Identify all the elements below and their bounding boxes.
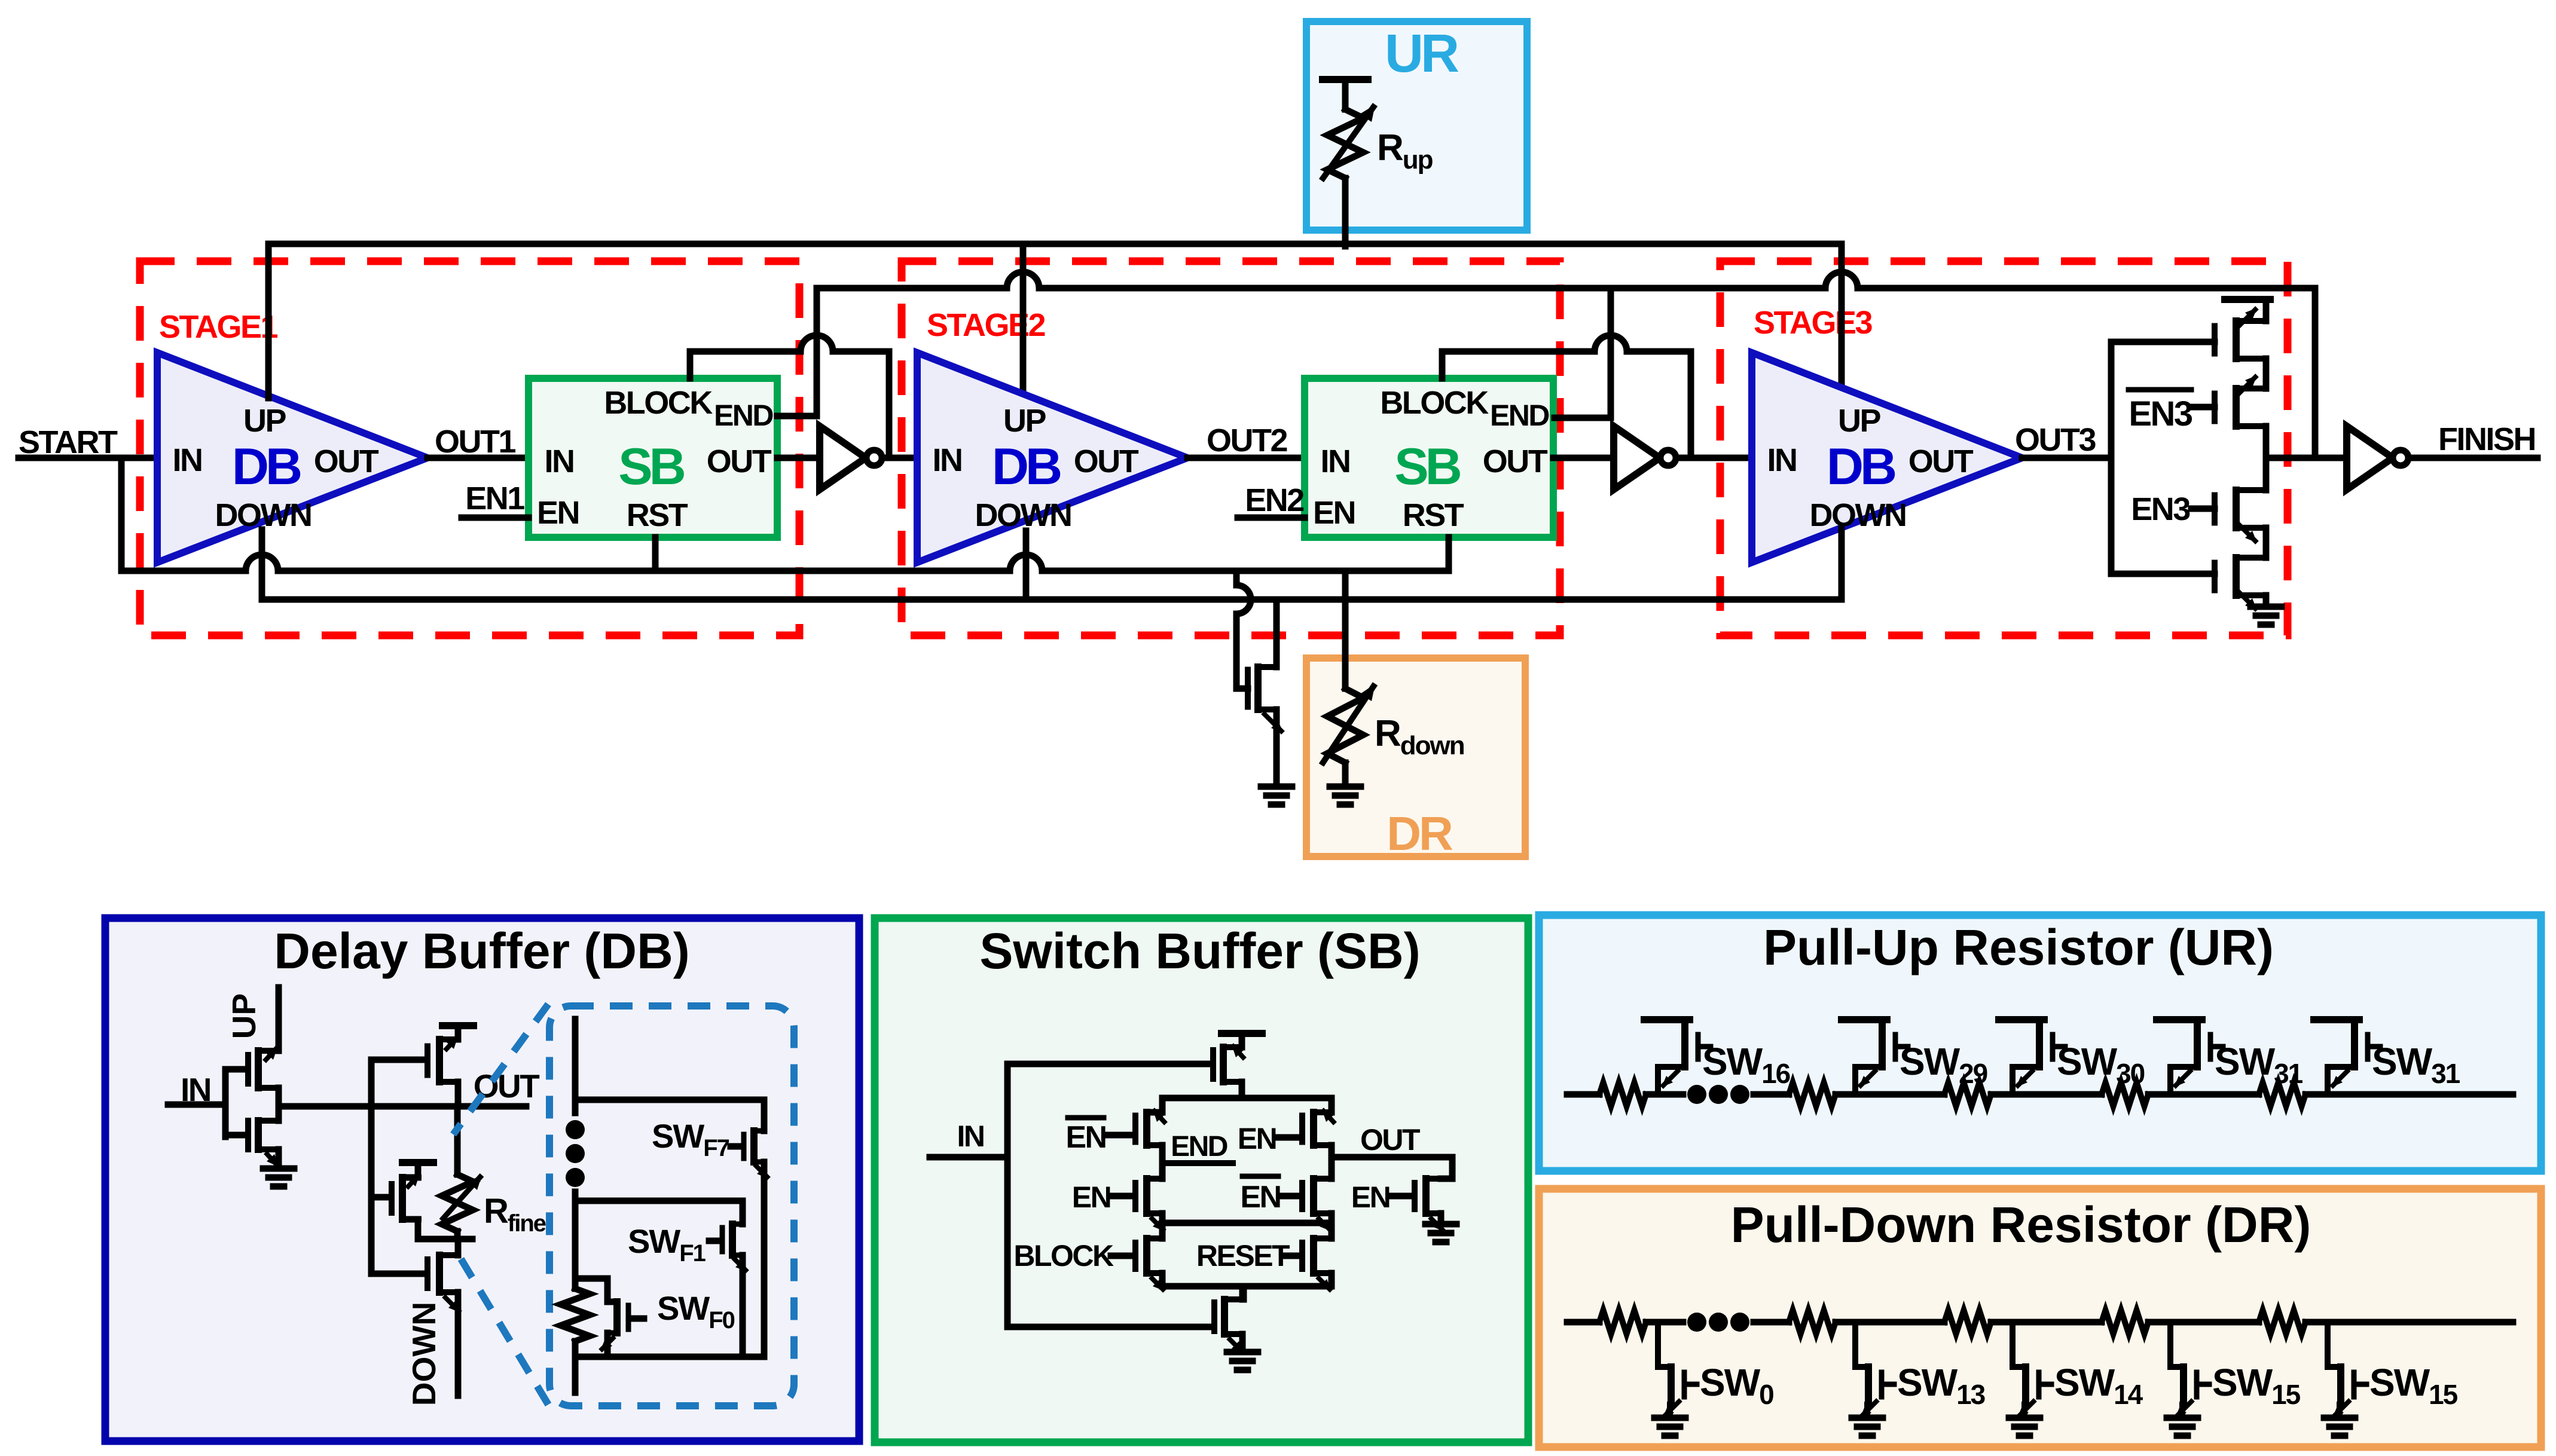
wire NMOS drain to DOWN bus <box>1274 599 1280 667</box>
VDD symbol SB top <box>1221 1033 1262 1047</box>
variable resistor Rup <box>1321 105 1375 181</box>
svg-text:STAGE2: STAGE2 <box>927 307 1045 343</box>
wire IN <box>168 1102 225 1108</box>
wire END bus drop to FINISH node <box>2312 288 2319 458</box>
wire right col row3 top <box>1329 1223 1335 1238</box>
Pull-Up Resistor panel title <box>1763 919 2274 975</box>
END feedback bus wire y=482 <box>817 272 2315 288</box>
wire gate lead bottom NMOS <box>371 1271 425 1277</box>
SW15 label <box>2212 1361 2301 1410</box>
wire gate lead top PMOS <box>371 1057 425 1063</box>
transistor MN4 stack bottom <box>2215 558 2266 610</box>
wire inv out node <box>276 1088 282 1121</box>
svg-text:OUT2: OUT2 <box>1207 423 1287 458</box>
wire node 2073 <box>418 1236 472 1243</box>
Rup label <box>1377 127 1433 175</box>
wire Rfine top <box>454 1106 461 1174</box>
SW31b label <box>2372 1040 2460 1089</box>
svg-text:UR: UR <box>1385 24 1459 84</box>
wire right col top <box>1329 1098 1335 1112</box>
svg-text:OUT: OUT <box>1908 443 1974 479</box>
wire OUT drop <box>1441 1157 1452 1179</box>
Pull-Up Resistor panel box <box>1539 915 2541 1171</box>
svg-text:OUT: OUT <box>1360 1123 1420 1157</box>
wire SWF0 down <box>604 1333 611 1357</box>
switch transistor SW31 <box>2157 1020 2223 1094</box>
EN left label <box>1072 1180 1110 1214</box>
pull-up resistor block UR box <box>1306 22 1527 230</box>
svg-text:DB: DB <box>232 438 301 495</box>
OUT label DB panel <box>474 1067 540 1105</box>
svg-text:EN1: EN1 <box>465 481 524 516</box>
node EN1 label <box>465 481 524 516</box>
transistor MP2 EN3bar <box>2215 375 2266 426</box>
DB1 pin label OUT <box>314 443 379 479</box>
wire EN left gate lead <box>1112 1193 1133 1200</box>
UP label rotated <box>225 993 262 1039</box>
wire RST1 vertical <box>652 537 659 571</box>
svg-text:IN: IN <box>933 442 962 478</box>
Pull-Down Resistor panel title <box>1731 1197 2311 1253</box>
wire 2nd gate rail <box>368 1060 375 1274</box>
wire stack output <box>2266 455 2347 461</box>
transistor MP1 EN stack top <box>2215 308 2266 359</box>
node OUT1 label <box>435 424 515 460</box>
svg-text:RST: RST <box>1403 497 1464 533</box>
svg-text:EN3: EN3 <box>2131 491 2190 527</box>
RST bus wire y=955 <box>121 555 1449 571</box>
transistor BLOCK <box>1135 1238 1165 1291</box>
wire SWF7 branch top <box>575 1100 764 1131</box>
SWF0 label <box>657 1289 735 1333</box>
wire fine bottom collector <box>575 1341 764 1393</box>
wire SWF0 bypass <box>575 1278 615 1302</box>
wire START drop to RST bus <box>118 458 125 571</box>
wire EN3 gate lead <box>2191 506 2215 512</box>
svg-text:OUT: OUT <box>314 443 379 479</box>
SB2 pin label OUT <box>1483 443 1548 479</box>
svg-text:IN: IN <box>957 1119 984 1153</box>
SB1 pin label BLOCK <box>604 385 713 421</box>
DB1 pin label DOWN <box>215 497 312 533</box>
svg-text:UP: UP <box>1838 403 1880 439</box>
wire SB left rail <box>1004 1064 1011 1327</box>
wire UP2 vertical <box>1020 244 1027 394</box>
switch transistor SW30 <box>1999 1020 2065 1094</box>
wire MN source to ground <box>276 1149 282 1169</box>
wire EN right gate lead <box>1278 1134 1300 1141</box>
wire UP3 vertical <box>1839 244 1845 388</box>
STAGE1 dashed box <box>140 261 799 635</box>
SW31 label <box>2215 1040 2303 1089</box>
svg-text:Pull-Up Resistor (UR): Pull-Up Resistor (UR) <box>1763 919 2274 975</box>
wire SWF7 gate lead <box>731 1143 741 1150</box>
svg-text:EN: EN <box>1313 495 1355 531</box>
wire NMOS source to ground <box>1274 709 1280 787</box>
svg-text:IN: IN <box>1321 443 1350 479</box>
UR resistor R1 <box>1599 1082 1646 1106</box>
wire SB2 to inverter <box>1553 455 1614 461</box>
wire OUT1 <box>427 455 529 461</box>
transistor MN SB bottom <box>1214 1299 1244 1353</box>
wire OUT SB <box>1332 1154 1452 1161</box>
wire MP1-MP2 <box>2263 359 2270 389</box>
svg-text:EN: EN <box>537 495 579 531</box>
DR resistor R1 <box>1599 1310 1646 1334</box>
SB1 pin label OUT <box>707 443 772 479</box>
wire ENbar right gate lead <box>1281 1193 1300 1200</box>
SB1 pin label RST <box>627 497 688 533</box>
wire DOWN lead <box>455 1292 462 1396</box>
svg-text:Pull-Down Resistor (DR): Pull-Down Resistor (DR) <box>1731 1197 2311 1253</box>
node EN2 label <box>1245 482 1303 518</box>
wire DB1 DOWN vertical <box>259 530 265 599</box>
wire bridge left top corner <box>1150 1098 1162 1112</box>
DB1 pin label IN <box>173 442 202 478</box>
svg-text:OUT: OUT <box>707 443 772 479</box>
node OUT2 label <box>1207 423 1287 458</box>
SWF1 label <box>628 1222 706 1267</box>
wire RST bus drop to NMOS gate <box>1236 571 1251 689</box>
SB2 pin label IN <box>1321 443 1350 479</box>
wire drain to out wire <box>455 1082 462 1106</box>
wire START input <box>19 455 157 461</box>
switch transistor SW31b <box>2314 1020 2380 1094</box>
DB3 pin label IN <box>1767 442 1797 478</box>
RESET label <box>1196 1239 1290 1273</box>
UR resistor R3 <box>1944 1082 1991 1106</box>
SW13 label <box>1897 1361 1985 1410</box>
wire OUT2 <box>1187 455 1305 461</box>
wire gate rail inv <box>225 1069 246 1137</box>
svg-text:STAGE1: STAGE1 <box>159 309 278 345</box>
SW16 label <box>1702 1040 1790 1089</box>
EN right label <box>1238 1122 1276 1155</box>
svg-text:IN: IN <box>1767 442 1797 478</box>
transistor MN down <box>427 1255 460 1313</box>
variable resistor Rdown <box>1321 684 1375 765</box>
svg-text:Switch Buffer (SB): Switch Buffer (SB) <box>979 923 1420 979</box>
svg-text:OUT1: OUT1 <box>435 424 515 460</box>
wire left col row3 bottom <box>1159 1273 1166 1286</box>
SB2 pin label RST <box>1403 497 1464 533</box>
svg-text:BLOCK: BLOCK <box>1380 385 1489 421</box>
Switch Buffer panel title <box>979 923 1420 979</box>
ENbar right label <box>1240 1176 1280 1215</box>
wire END2 feedback <box>1555 288 1611 418</box>
blue dashed zoom box <box>549 1006 794 1406</box>
Delay Buffer panel title <box>274 923 689 979</box>
wire right col to rail2 <box>1329 1213 1335 1223</box>
delay buffer DB2 triangle <box>917 353 1187 562</box>
wire Rfine bottom <box>454 1231 461 1239</box>
wire SWF1 branch <box>575 1201 743 1224</box>
SB2 label SB <box>1394 438 1460 495</box>
DB3 pin label OUT <box>1908 443 1974 479</box>
wire DB1 UP vertical <box>265 244 272 398</box>
blue dashed zoom diagonal top <box>453 1004 548 1134</box>
svg-text:DB: DB <box>992 438 1061 495</box>
STAGE1 label <box>159 309 278 345</box>
delay buffer DB3 triangle <box>1752 353 2022 562</box>
wire fine rail top <box>572 1019 579 1113</box>
wire bridge top rail <box>1162 1095 1332 1102</box>
transistor MP mid <box>392 1174 420 1219</box>
svg-text:Delay Buffer (DB): Delay Buffer (DB) <box>274 923 689 979</box>
DB2 pin label UP <box>1003 403 1046 439</box>
DOWN label rotated <box>405 1302 442 1406</box>
wire EN1 <box>462 515 529 521</box>
transistor SWF1 <box>722 1224 747 1272</box>
inverter INV2 <box>1614 426 1676 490</box>
wire UP supply <box>276 987 282 1051</box>
wire EN pass gate lead <box>1391 1193 1412 1200</box>
transistor SWF7 <box>744 1131 769 1179</box>
wire DB2 DOWN vertical <box>1023 531 1030 599</box>
EN3bar label <box>2129 390 2192 433</box>
wire RST2 vertical <box>1446 537 1452 571</box>
wire MP drain to bridge <box>1239 1082 1245 1098</box>
svg-text:END: END <box>1171 1131 1227 1163</box>
OUT label SB panel <box>1360 1123 1420 1157</box>
wire SWF1 down <box>740 1255 746 1357</box>
wire BLOCK gate lead <box>1111 1253 1133 1259</box>
SB2 pin label EN <box>1313 495 1355 531</box>
wire SWF1 gate lead <box>709 1238 720 1244</box>
wire EN3bar gate lead <box>2191 404 2215 411</box>
top bus wire <box>268 244 1842 396</box>
ground at SB bottom <box>1227 1352 1258 1370</box>
DB2 label DB <box>992 438 1061 495</box>
inverter INV1 <box>820 426 882 490</box>
wire EN2 <box>1238 515 1305 521</box>
svg-text:RST: RST <box>627 497 688 533</box>
DR dots <box>1687 1313 1749 1332</box>
transistor MN inv <box>248 1121 279 1167</box>
Rfine label <box>484 1192 546 1237</box>
svg-text:EN3: EN3 <box>2129 394 2192 433</box>
node FINISH label <box>2438 421 2535 457</box>
STAGE3 dashed box <box>1720 261 2288 635</box>
VDD symbol mid PMOS <box>402 1163 433 1177</box>
svg-text:IN: IN <box>173 442 202 478</box>
UR resistor R5 <box>2259 1082 2305 1106</box>
DR chain wire <box>1567 1319 2513 1326</box>
SB1 pin label IN <box>545 443 574 479</box>
svg-text:OUT: OUT <box>1074 443 1139 479</box>
svg-text:EN2: EN2 <box>1245 482 1303 518</box>
STAGE2 dashed box <box>902 261 1560 635</box>
wire gate bracket of output stack <box>2111 342 2215 574</box>
DR label <box>1387 807 1453 860</box>
wire FINISH <box>2408 455 2537 461</box>
DB3 label DB <box>1827 438 1895 495</box>
switch transistor SW29 <box>1842 1020 1908 1094</box>
SB2 pin label END <box>1490 399 1549 432</box>
wire drop to bottom NMOS <box>1241 1286 1247 1299</box>
blue dashed zoom diagonal bottom <box>458 1254 548 1405</box>
UR chain wire <box>1567 1091 2513 1098</box>
svg-text:STAGE3: STAGE3 <box>1754 305 1873 341</box>
svg-text:FINISH: FINISH <box>2438 421 2535 457</box>
DOWN bus wire y=1003 <box>262 597 1842 603</box>
wire right mid node <box>1329 1145 1335 1179</box>
wire BLOCK2 feedback <box>1442 335 1691 458</box>
DB2 pin label IN <box>933 442 962 478</box>
DB2 pin label OUT <box>1074 443 1139 479</box>
ground at stack <box>2250 607 2282 625</box>
wire END1 feedback <box>777 288 817 416</box>
wire IN SB <box>930 1154 1007 1161</box>
wire bridge mid rail <box>1162 1220 1332 1226</box>
transistor RESET <box>1302 1238 1332 1291</box>
VDD symbol in UR <box>1323 76 1368 83</box>
DR resistor R5 <box>2259 1310 2305 1334</box>
transistor ENbar right <box>1302 1179 1332 1231</box>
svg-text:EN: EN <box>1072 1180 1110 1214</box>
Pull-Down Resistor panel box <box>1539 1189 2541 1447</box>
SB2 pin label BLOCK <box>1380 385 1489 421</box>
wire mid PMOS drain <box>402 1219 418 1239</box>
switch buffer SB2 box <box>1305 378 1553 537</box>
SB1 label SB <box>618 438 684 495</box>
SB1 pin label EN <box>537 495 579 531</box>
DB2 pin label DOWN <box>975 497 1071 533</box>
svg-text:OUT: OUT <box>1483 443 1548 479</box>
svg-text:DOWN: DOWN <box>1810 497 1906 533</box>
transistor SWF0 <box>600 1302 628 1351</box>
wire Rdown to ground <box>1342 763 1349 787</box>
svg-text:END: END <box>714 399 773 432</box>
Switch Buffer panel box <box>875 918 1528 1442</box>
EN3 label <box>2131 491 2190 527</box>
wire right col row3 bottom <box>1329 1273 1335 1286</box>
transistor MN3 EN3 upper <box>2215 490 2266 543</box>
wire output node to MN3 <box>2263 458 2270 490</box>
svg-text:UP: UP <box>225 993 262 1039</box>
wire SWF7 down <box>761 1162 768 1357</box>
dots on rail <box>566 1120 585 1187</box>
svg-text:BLOCK: BLOCK <box>1013 1239 1114 1273</box>
switch transistor SW15b <box>2324 1322 2366 1436</box>
wire left col to rail2 <box>1159 1213 1166 1223</box>
inverter INV3 <box>2347 426 2408 490</box>
VDD symbol top PMOS <box>442 1026 474 1039</box>
SWF7 label <box>652 1117 729 1161</box>
DR resistor R4 <box>2102 1310 2148 1334</box>
DB1 label DB <box>232 438 301 495</box>
node START label <box>19 424 118 460</box>
wire DB3 DOWN vertical <box>1839 529 1845 599</box>
DR resistor R3 <box>1944 1310 1991 1334</box>
wire bottom gate lead <box>1007 1324 1212 1330</box>
wire OUT3 <box>2022 455 2111 461</box>
switch transistor SW13 <box>1852 1322 1894 1436</box>
delay buffer DB1 triangle <box>157 353 427 562</box>
transistor ENbar left <box>1135 1109 1166 1145</box>
svg-text:DR: DR <box>1387 807 1453 860</box>
wire gate lead mid PMOS <box>371 1194 389 1201</box>
DB1 pin label UP <box>243 403 286 439</box>
svg-text:IN: IN <box>545 443 574 479</box>
wire top gate lead <box>1007 1061 1211 1067</box>
BLOCK label <box>1013 1239 1114 1273</box>
svg-text:SB: SB <box>618 438 684 495</box>
Delay Buffer panel box <box>105 918 859 1441</box>
svg-text:OUT3: OUT3 <box>2015 422 2096 458</box>
wire bridge bottom rail <box>1162 1283 1332 1290</box>
transistor MP SB top <box>1213 1045 1245 1082</box>
wire SWF0 gate lead <box>631 1316 644 1322</box>
svg-text:UP: UP <box>1003 403 1046 439</box>
switch transistor SW16 <box>1644 1020 1711 1094</box>
DB3 pin label DOWN <box>1810 497 1906 533</box>
svg-text:RESET: RESET <box>1196 1239 1290 1273</box>
svg-text:EN: EN <box>1238 1122 1276 1155</box>
wire MN3-MN4 <box>2263 528 2270 558</box>
svg-text:DB: DB <box>1827 438 1895 495</box>
resistor fine unit <box>561 1289 590 1341</box>
svg-text:EN: EN <box>1351 1180 1390 1214</box>
wire SB1 to inverter <box>777 455 820 461</box>
wire INV2 to DB3 <box>1676 455 1752 461</box>
ground at NMOS <box>1261 787 1292 805</box>
DB3 pin label UP <box>1838 403 1880 439</box>
svg-text:END: END <box>1490 399 1549 432</box>
wire bottom NMOS drain <box>1239 1286 1246 1299</box>
svg-text:DOWN: DOWN <box>405 1302 442 1406</box>
switch transistor SW15 <box>2167 1322 2209 1436</box>
ENbar left label <box>1065 1118 1106 1155</box>
node OUT3 label <box>2015 422 2096 458</box>
SB1 pin label END <box>714 399 773 432</box>
svg-text:EN: EN <box>1065 1120 1106 1155</box>
wire INV1 to DB2 <box>882 455 917 461</box>
transistor EN right top <box>1302 1109 1335 1145</box>
variable resistor Rfine <box>441 1174 482 1231</box>
END label <box>1166 1131 1233 1163</box>
svg-text:EN: EN <box>1240 1180 1280 1215</box>
SW30 label <box>2057 1040 2145 1089</box>
ground at inverter <box>263 1169 294 1186</box>
wire ENbar left gate lead <box>1107 1132 1133 1139</box>
STAGE2 label <box>927 307 1045 343</box>
wire EN pass source <box>1438 1213 1445 1224</box>
pull-down resistor block DR box <box>1306 658 1525 857</box>
wire Rdown top <box>1342 571 1349 689</box>
wire VDD to Rup <box>1342 79 1349 109</box>
SW14 label <box>2054 1361 2143 1410</box>
svg-text:BLOCK: BLOCK <box>604 385 713 421</box>
EN pass label <box>1351 1180 1390 1214</box>
svg-text:UP: UP <box>243 403 286 439</box>
wire BLOCK1 feedback <box>690 335 889 458</box>
VDD symbol at stack top <box>2225 299 2270 321</box>
wire NMOS drain up <box>455 1239 462 1255</box>
wire Rup to top bus <box>1342 178 1349 246</box>
switch transistor SW14 <box>2009 1322 2051 1436</box>
switch buffer SB1 box <box>529 378 777 537</box>
Rdown label <box>1375 713 1464 760</box>
ground at Rdown <box>1330 787 1361 805</box>
UR dots <box>1687 1085 1749 1104</box>
IN label <box>181 1071 210 1108</box>
wire bottom NMOS source <box>1239 1334 1246 1352</box>
wire MN4 to ground <box>2263 595 2270 607</box>
STAGE3 label <box>1754 305 1873 341</box>
wire MP2 to output node <box>2263 426 2270 458</box>
transistor EN pass <box>1415 1179 1444 1231</box>
